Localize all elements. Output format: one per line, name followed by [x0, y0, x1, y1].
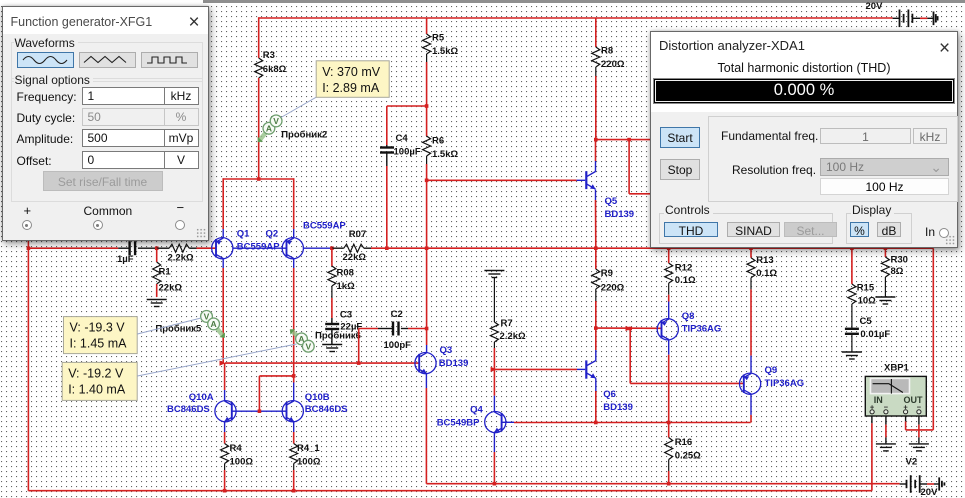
resistor R5 — [423, 18, 459, 108]
resistor R30 — [881, 248, 908, 296]
wire bottom rail — [28, 489, 872, 493]
resistor R6 — [423, 106, 459, 182]
svg-text:C5: C5 — [860, 316, 873, 327]
probe Пробник6 — [290, 329, 361, 352]
transistor Q10A — [167, 392, 236, 422]
svg-text:R3: R3 — [263, 50, 275, 61]
svg-text:I: 1.45 mA: I: 1.45 mA — [70, 337, 128, 351]
svg-text:R08: R08 — [337, 268, 354, 279]
wire Q9 emitter down — [750, 394, 752, 422]
resistor R3 — [255, 17, 287, 179]
svg-text:R07: R07 — [349, 229, 366, 240]
svg-text:R13: R13 — [756, 255, 773, 266]
svg-text:C3: C3 — [340, 310, 352, 321]
svg-text:V: -19.3 V: V: -19.3 V — [70, 321, 126, 335]
svg-text:6k8Ω: 6k8Ω — [263, 64, 287, 75]
wire Q4 base lead — [502, 421, 514, 423]
svg-text:1.5kΩ: 1.5kΩ — [432, 149, 458, 160]
svg-text:R15: R15 — [857, 283, 875, 294]
wire Q2 collector to Q10B — [293, 259, 295, 401]
svg-text:V: V — [273, 116, 279, 126]
probe box V-19.2 — [62, 344, 296, 400]
svg-text:100µF: 100µF — [394, 147, 421, 158]
resistor R08 — [328, 248, 355, 318]
wire Q4 collector — [493, 369, 495, 411]
svg-text:C4: C4 — [396, 133, 409, 144]
svg-text:220Ω: 220Ω — [601, 283, 625, 294]
svg-text:2.2kΩ: 2.2kΩ — [168, 253, 194, 264]
wire Q1/Q2 emitter tee — [223, 177, 294, 237]
wire Q10 bases — [232, 409, 287, 413]
svg-text:BC846DS: BC846DS — [305, 404, 348, 415]
svg-text:R5: R5 — [432, 33, 445, 44]
svg-text:Q2: Q2 — [266, 229, 279, 240]
svg-text:R16: R16 — [675, 437, 692, 448]
svg-text:I: 1.40 mA: I: 1.40 mA — [68, 382, 126, 396]
resistor R1 — [153, 248, 183, 297]
ground R1 — [147, 300, 167, 307]
wire Q5 base — [427, 179, 586, 181]
transistor Q8 — [657, 311, 721, 340]
wire Q4 emitter — [493, 433, 495, 484]
wire +20V top rail — [259, 17, 893, 19]
wire Q5 emitter — [595, 190, 597, 249]
wire mirror link — [259, 374, 295, 411]
resistor R07 — [303, 229, 428, 263]
svg-text:R1: R1 — [159, 267, 172, 278]
ground C3 — [322, 345, 342, 352]
svg-text:BD139: BD139 — [439, 358, 469, 369]
svg-text:Пробник5: Пробник5 — [155, 324, 202, 335]
probe Пробник2 — [258, 97, 328, 142]
resistor R7 — [490, 278, 526, 370]
wire XBP1 in+ — [871, 414, 873, 491]
svg-text:0.01µF: 0.01µF — [860, 329, 890, 340]
capacitor C3 — [325, 310, 362, 345]
transistor Q1 — [212, 229, 281, 259]
svg-text:V: 370 mV: V: 370 mV — [322, 65, 381, 79]
capacitor C2 — [384, 309, 412, 351]
battery V2 20V — [900, 457, 945, 498]
svg-text:TIP36AG: TIP36AG — [765, 378, 805, 389]
transistor Q9 — [740, 365, 805, 394]
svg-text:Q3: Q3 — [440, 345, 453, 356]
wire Q6 base — [491, 367, 586, 372]
svg-text:A: A — [211, 319, 217, 329]
svg-text:TIP36AG: TIP36AG — [682, 324, 722, 335]
svg-text:100Ω: 100Ω — [230, 457, 254, 468]
transistor Q6 — [586, 360, 633, 413]
svg-text:Q6: Q6 — [603, 389, 616, 400]
battery V1 20V — [866, 1, 938, 27]
ground R30 — [875, 297, 895, 304]
ground R7 top — [484, 271, 504, 278]
probe box V-19.3 — [64, 317, 202, 354]
wire XBP1 out- — [918, 414, 920, 443]
wire Q3 emitter — [425, 374, 427, 484]
wire Q1 collector — [220, 259, 226, 366]
svg-text:V: V — [305, 341, 311, 351]
ground XBP1 out- — [909, 444, 929, 451]
svg-text:R6: R6 — [432, 136, 444, 147]
wire Q6 collector — [595, 328, 597, 361]
wire Q5 collector — [595, 140, 597, 172]
svg-text:BC559AP: BC559AP — [303, 221, 346, 232]
svg-text:R9: R9 — [601, 268, 613, 279]
svg-text:1.5kΩ: 1.5kΩ — [432, 46, 458, 57]
svg-text:Q10A: Q10A — [189, 392, 214, 403]
resistor R13 — [747, 248, 777, 373]
transistor Q4 — [437, 405, 506, 433]
svg-text:R7: R7 — [501, 318, 513, 329]
svg-text:100Ω: 100Ω — [297, 457, 321, 468]
svg-text:Q8: Q8 — [682, 311, 695, 322]
svg-text:220Ω: 220Ω — [601, 59, 625, 70]
svg-text:R12: R12 — [675, 263, 692, 274]
resistor R16 — [665, 423, 701, 484]
wire analyzer in2 — [629, 140, 652, 194]
wire A base line — [225, 361, 419, 365]
svg-text:Пробник2: Пробник2 — [281, 130, 327, 141]
capacitor C4 branch — [380, 106, 427, 248]
wire 423 rail — [514, 421, 751, 425]
capacitor C5 — [845, 316, 890, 352]
svg-text:Q1: Q1 — [237, 229, 250, 240]
svg-text:Пробник6: Пробник6 — [315, 331, 361, 342]
transistor Q2 — [233, 221, 347, 259]
wire lower out rail — [426, 482, 899, 486]
svg-text:BC846DS: BC846DS — [167, 404, 210, 415]
svg-text:Q9: Q9 — [765, 365, 778, 376]
resistor R15 — [848, 248, 876, 328]
svg-text:Q10B: Q10B — [305, 392, 330, 403]
svg-text:C2: C2 — [391, 309, 403, 320]
bode plotter XBP1 — [865, 363, 926, 417]
svg-text:10Ω: 10Ω — [858, 296, 877, 307]
svg-text:BD139: BD139 — [605, 209, 635, 220]
transistor Q3 — [415, 345, 468, 374]
transistor Q10B — [282, 392, 347, 422]
wire Q6 emitter — [595, 378, 597, 422]
svg-text:R4_1: R4_1 — [297, 443, 320, 454]
resistor R12 — [665, 248, 696, 318]
svg-text:V2: V2 — [906, 457, 918, 468]
svg-text:R8: R8 — [601, 46, 613, 57]
capacitor C1 1uF — [117, 241, 135, 265]
svg-text:22kΩ: 22kΩ — [343, 252, 367, 263]
svg-text:I: 2.89 mA: I: 2.89 mA — [322, 81, 380, 95]
wire out right column — [906, 248, 934, 430]
resistor R4_1 — [290, 422, 321, 491]
svg-text:V: -19.2 V: V: -19.2 V — [68, 366, 124, 380]
wire Q10A collector — [224, 363, 226, 401]
svg-text:0.25Ω: 0.25Ω — [675, 451, 701, 462]
svg-text:20V: 20V — [866, 1, 884, 12]
wire left column — [27, 240, 31, 491]
svg-text:1µF: 1µF — [117, 254, 134, 265]
svg-text:BD139: BD139 — [603, 402, 633, 413]
wire Q8 base — [596, 326, 662, 331]
wire C2 branch — [359, 327, 429, 363]
resistor R4 — [221, 422, 254, 491]
svg-text:2.2kΩ: 2.2kΩ — [500, 331, 526, 342]
svg-text:BC549BP: BC549BP — [437, 418, 480, 429]
transistor Q5 — [586, 171, 634, 220]
resistor R2 2.2k — [168, 244, 217, 263]
svg-text:8Ω: 8Ω — [891, 266, 904, 277]
ground C5 — [842, 352, 862, 359]
svg-text:20V: 20V — [921, 487, 939, 498]
svg-text:R30: R30 — [891, 255, 908, 266]
wire R6 column down — [426, 180, 428, 352]
svg-text:XBP1: XBP1 — [884, 363, 910, 374]
wire main rail right — [427, 246, 934, 250]
resistor R8 — [592, 18, 625, 141]
resistor R9 — [592, 248, 625, 330]
svg-text:100pF: 100pF — [384, 340, 412, 351]
wire analyzer in1 — [596, 138, 652, 142]
svg-text:22kΩ: 22kΩ — [159, 283, 183, 294]
svg-text:Q4: Q4 — [470, 405, 483, 416]
wire main rail — [28, 246, 169, 250]
svg-text:Q5: Q5 — [605, 196, 618, 207]
svg-text:BC559AP: BC559AP — [237, 242, 280, 253]
ground XBP1 in- — [876, 444, 896, 451]
svg-text:0.1Ω: 0.1Ω — [675, 275, 696, 286]
probe Пробник5 — [155, 311, 225, 338]
svg-text:0.1Ω: 0.1Ω — [756, 268, 777, 279]
probe box V370 — [316, 61, 389, 98]
wire Q8 emitter down — [668, 340, 670, 423]
svg-text:1kΩ: 1kΩ — [337, 281, 356, 292]
svg-text:IN: IN — [874, 395, 883, 405]
wire Q9 base branch — [630, 329, 744, 384]
wire XBP1 in- — [885, 414, 887, 443]
svg-text:R4: R4 — [230, 443, 243, 454]
